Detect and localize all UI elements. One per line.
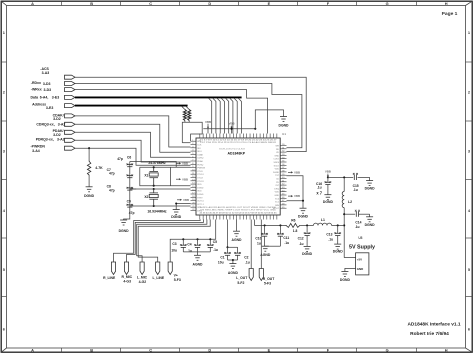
svg-text:GND: GND bbox=[357, 267, 363, 271]
capacitor C6 47p bbox=[127, 164, 134, 167]
wire C1 C2 to AGND bbox=[228, 259, 238, 261]
wire R_LINE to U1 bbox=[114, 220, 201, 263]
svg-text:PWRDN: PWRDN bbox=[197, 168, 205, 170]
ground AGND under C1 C2 bbox=[229, 264, 236, 269]
wire L_LINE to U1 bbox=[138, 220, 210, 263]
wire -ACS to U1 bbox=[75, 77, 306, 151]
svg-text:DGND: DGND bbox=[298, 214, 309, 218]
wire -RD/ to U1 bbox=[75, 84, 302, 148]
svg-text:C3: C3 bbox=[172, 242, 176, 246]
svg-text:DGND: DGND bbox=[119, 229, 130, 233]
svg-text:A: A bbox=[31, 348, 34, 353]
off-page connector -RD/ bbox=[65, 82, 76, 86]
svg-text:E: E bbox=[268, 1, 271, 6]
bus Address bbox=[75, 105, 188, 107]
svg-text:.1u: .1u bbox=[284, 241, 289, 245]
svg-text:x 7: x 7 bbox=[316, 190, 322, 195]
wire PDRQ to U1 bbox=[75, 140, 191, 162]
svg-text:WSI: WSI bbox=[197, 141, 201, 143]
svg-text:AD1848KP: AD1848KP bbox=[228, 150, 246, 155]
svg-text:CD: CD bbox=[276, 179, 280, 181]
capacitor C14 .1u bbox=[355, 210, 360, 217]
svg-text:Page 1: Page 1 bbox=[442, 11, 458, 17]
svg-text:VDD: VDD bbox=[197, 184, 202, 186]
ground AGND below U1 bbox=[233, 231, 240, 236]
svg-text:3-A2: 3-A2 bbox=[58, 122, 66, 126]
svg-text:47p: 47p bbox=[117, 157, 123, 161]
wire R1 to ground bbox=[88, 176, 90, 187]
svg-text:C14: C14 bbox=[355, 221, 361, 225]
svg-text:SDO: SDO bbox=[197, 151, 202, 153]
svg-text:VD: VD bbox=[276, 152, 279, 154]
bus Data bbox=[75, 96, 242, 98]
svg-text:VBB: VBB bbox=[205, 120, 211, 124]
svg-text:.1u: .1u bbox=[187, 249, 192, 253]
power VBB right of U1 (1) bbox=[288, 171, 291, 173]
svg-text:U1: U1 bbox=[282, 132, 286, 136]
capacitor C12 .1u bbox=[306, 225, 308, 233]
svg-text:MOUT: MOUT bbox=[273, 208, 280, 210]
svg-text:.1u: .1u bbox=[299, 242, 304, 246]
off-page connector -ACS bbox=[65, 75, 76, 79]
svg-text:C12: C12 bbox=[298, 236, 304, 240]
svg-text:SDI: SDI bbox=[197, 148, 201, 150]
inductor L1 bbox=[314, 223, 332, 225]
ground DGND under R1 bbox=[86, 187, 93, 192]
wire C15 to ground bbox=[369, 177, 371, 180]
junction -PWRDN / R1 bbox=[88, 147, 90, 149]
svg-text:DGND: DGND bbox=[365, 187, 376, 191]
svg-text:C4: C4 bbox=[187, 243, 191, 247]
svg-text:4.7K: 4.7K bbox=[95, 166, 103, 170]
off-page connector Data bus bbox=[65, 95, 76, 99]
svg-text:PDRQ3-xx,: PDRQ3-xx, bbox=[36, 138, 54, 142]
off-page connector R_MIC bbox=[124, 262, 128, 275]
svg-text:+5V: +5V bbox=[357, 258, 362, 262]
svg-text:H: H bbox=[445, 348, 448, 353]
wire +5V to U8 bbox=[344, 257, 355, 259]
wire R6 to L1 bbox=[301, 224, 314, 226]
capacitor C11 .1u bbox=[279, 225, 281, 234]
IC U1 pin stubs right bbox=[280, 146, 286, 209]
svg-text:C10: C10 bbox=[255, 237, 261, 241]
svg-text:C: C bbox=[149, 348, 152, 353]
svg-text:1.8: 1.8 bbox=[293, 229, 298, 233]
svg-text:DGND: DGND bbox=[84, 194, 95, 198]
svg-text:VDD: VDD bbox=[275, 192, 280, 194]
svg-text:VBB: VBB bbox=[325, 170, 331, 174]
svg-text:CLKO: CLKO bbox=[273, 159, 279, 161]
svg-text:H: H bbox=[445, 1, 448, 6]
svg-text:DGND: DGND bbox=[323, 200, 334, 204]
ground DGND right of C14 bbox=[366, 217, 373, 222]
svg-text:R_OUT: R_OUT bbox=[263, 277, 275, 281]
wire analog rail bbox=[253, 220, 255, 226]
ground DGND under C13 bbox=[334, 244, 341, 249]
svg-text:VBB: VBB bbox=[183, 198, 189, 202]
svg-text:X1: X1 bbox=[144, 173, 148, 177]
svg-text:C9: C9 bbox=[127, 199, 131, 203]
svg-text:CLK: CLK bbox=[197, 145, 202, 147]
svg-text:6-A4,: 6-A4, bbox=[40, 96, 49, 100]
wire VBB rail above U1 bbox=[203, 128, 255, 130]
wire CDRQ to U1 bbox=[75, 124, 191, 152]
wire L_MIC to U1 bbox=[137, 220, 207, 263]
svg-text:R_LINE: R_LINE bbox=[103, 276, 116, 280]
svg-text:VDD: VDD bbox=[275, 169, 280, 171]
svg-text:Data: Data bbox=[31, 95, 39, 99]
svg-text:L_LINE: L_LINE bbox=[152, 276, 164, 280]
svg-text:PD7 PD6 PD5 PD4 PD3 PD2 PD1 PD: PD7 PD6 PD5 PD4 PD3 PD2 PD1 PD0 CS A1 A0… bbox=[200, 141, 277, 144]
svg-text:3-A3: 3-A3 bbox=[42, 71, 50, 75]
off-page connector Address bus bbox=[65, 104, 76, 108]
wire -PWRDN to U1 bbox=[75, 148, 191, 165]
svg-text:47p: 47p bbox=[109, 172, 115, 176]
svg-text:PDAK: PDAK bbox=[197, 160, 203, 163]
capacitor C9 47p bbox=[127, 204, 134, 207]
IC U1 pin stubs top bbox=[200, 134, 277, 139]
svg-text:VDD: VDD bbox=[197, 191, 202, 193]
wire -WR/ to U1 bbox=[75, 90, 268, 134]
off-page connector PDRQ bbox=[65, 138, 76, 142]
resistor R1 4.7K bbox=[88, 148, 90, 160]
wire C3 C4 C5 to AGND bbox=[183, 251, 210, 253]
svg-text:E: E bbox=[268, 348, 271, 353]
off-page connector CDAK/ bbox=[65, 114, 76, 118]
svg-text:VBB: VBB bbox=[228, 122, 234, 126]
wire cap column bbox=[124, 162, 130, 221]
svg-text:C5: C5 bbox=[213, 240, 217, 244]
svg-text:D: D bbox=[208, 1, 211, 6]
svg-text:XTL1O: XTL1O bbox=[197, 174, 204, 176]
svg-text:CDRQ3-xx,: CDRQ3-xx, bbox=[36, 122, 54, 126]
wire U1 right pins to DGND bbox=[287, 176, 304, 209]
svg-text:4 5 6 7 8 9 10 11 12 13 14 15: 4 5 6 7 8 9 10 11 12 13 14 15 16 17 18 1… bbox=[200, 139, 278, 141]
off-page connector L_LINE bbox=[156, 262, 160, 275]
resistor R5 pull-up bbox=[188, 110, 191, 121]
svg-text:DGND: DGND bbox=[279, 124, 290, 128]
svg-text:3-D2: 3-D2 bbox=[53, 117, 61, 121]
svg-text:3-D3: 3-D3 bbox=[44, 88, 52, 92]
resistor R4 pull-up bbox=[183, 110, 186, 121]
bus entries Data to U1 top pins bbox=[209, 98, 242, 133]
capacitor C8 47p bbox=[127, 187, 134, 190]
svg-text:DGND: DGND bbox=[197, 194, 204, 196]
wire VBB rail bbox=[328, 176, 353, 178]
wire crystal X1 top bbox=[130, 162, 176, 168]
off-page connector CDRQ bbox=[65, 122, 76, 126]
ground DGND top right bbox=[280, 117, 287, 122]
wire R_OUT bbox=[260, 220, 262, 269]
capacitor C5 .1u bbox=[209, 239, 211, 245]
svg-text:MIN: MIN bbox=[275, 205, 279, 207]
capacitor C16 .1u bbox=[327, 177, 329, 182]
power VBB left of U1 (3) bbox=[177, 199, 180, 201]
svg-text:DGND: DGND bbox=[333, 249, 344, 253]
svg-text:47p: 47p bbox=[129, 211, 135, 215]
svg-text:U8: U8 bbox=[358, 236, 362, 240]
svg-text:.1u: .1u bbox=[355, 225, 360, 229]
wire L1 to +5V node bbox=[332, 224, 345, 226]
wire V+ rail bbox=[170, 220, 216, 263]
svg-text:XTL2O: XTL2O bbox=[197, 181, 204, 183]
svg-text:DRQ: DRQ bbox=[274, 188, 279, 190]
off-page connector R_OUT bbox=[259, 269, 263, 281]
svg-text:XCTL1: XCTL1 bbox=[197, 204, 204, 206]
svg-text:5-F3: 5-F3 bbox=[264, 281, 271, 285]
svg-text:3-E3: 3-E3 bbox=[52, 96, 59, 100]
svg-text:10u: 10u bbox=[218, 261, 224, 265]
capacitor C2 .1u bbox=[228, 246, 238, 248]
svg-text:-WRxx: -WRxx bbox=[31, 87, 42, 91]
off-page connector L_OUT bbox=[249, 269, 253, 281]
wire R_MIC to U1 bbox=[127, 220, 204, 263]
svg-text:3-D2: 3-D2 bbox=[53, 133, 61, 137]
svg-text:.1u: .1u bbox=[353, 188, 358, 192]
svg-text:G: G bbox=[386, 348, 389, 353]
ground DGND under cap column bbox=[120, 220, 127, 225]
svg-text:AGND: AGND bbox=[232, 238, 243, 242]
svg-text:SCLK: SCLK bbox=[274, 165, 280, 167]
svg-text:1u: 1u bbox=[257, 241, 261, 245]
svg-text:C11: C11 bbox=[283, 236, 289, 240]
svg-text:3-A4: 3-A4 bbox=[32, 149, 40, 153]
svg-text:B: B bbox=[90, 348, 93, 353]
svg-text:PD: PD bbox=[276, 182, 279, 184]
svg-text:Robert Irie 7/6/94: Robert Irie 7/6/94 bbox=[410, 331, 449, 337]
svg-text:AUX1L AUX1R AUX2L AUX2R LOUT R: AUX1L AUX1R AUX2L AUX2R LOUT ROUT VREFI … bbox=[200, 206, 277, 209]
svg-text:SDFS: SDFS bbox=[273, 162, 279, 164]
ground AGND under C4 bbox=[194, 255, 201, 260]
capacitor C3 10u bbox=[182, 239, 184, 245]
svg-text:GND: GND bbox=[274, 195, 279, 197]
svg-text:CDRQ: CDRQ bbox=[197, 158, 204, 160]
svg-text:DGND: DGND bbox=[273, 172, 280, 174]
wire CDAK/ to U1 bbox=[75, 116, 191, 147]
off-page connector R_LINE bbox=[111, 262, 115, 275]
wire to DGND top right bbox=[255, 110, 283, 129]
svg-text:DGND: DGND bbox=[302, 252, 313, 256]
ground DGND right of C15 bbox=[366, 181, 373, 186]
svg-text:DGND: DGND bbox=[365, 223, 376, 227]
svg-text:VBB: VBB bbox=[294, 171, 300, 175]
svg-text:VBB: VBB bbox=[182, 177, 188, 181]
svg-text:4-G3: 4-G3 bbox=[123, 279, 131, 283]
svg-text:G: G bbox=[386, 1, 389, 6]
svg-text:Address: Address bbox=[32, 102, 46, 106]
svg-text:LIN RIN LMIC RMIC VREF LOUT RO: LIN RIN LMIC RMIC VREF LOUT ROUT LFLT RF… bbox=[200, 210, 277, 212]
crystal X1 24.576MHz bbox=[153, 166, 155, 168]
svg-text:RD: RD bbox=[276, 149, 280, 151]
svg-text:R6: R6 bbox=[291, 219, 295, 223]
ground DGND right of U1 bbox=[300, 208, 307, 213]
svg-text:XCTL0: XCTL0 bbox=[197, 201, 204, 203]
wire U1 pin to DGND left bbox=[176, 204, 190, 210]
svg-text:TEST: TEST bbox=[197, 197, 203, 199]
wire C10 C11 to AGND bbox=[265, 245, 281, 247]
wire L2 to +5V node bbox=[343, 208, 345, 258]
off-page connector -WR/ bbox=[65, 88, 76, 92]
svg-text:5-F3: 5-F3 bbox=[174, 278, 181, 282]
capacitor C15 .1u bbox=[353, 173, 358, 180]
capacitor C10 1u bbox=[264, 225, 266, 234]
svg-text:10u: 10u bbox=[171, 248, 177, 252]
power VBB left of U1 (2) bbox=[176, 178, 179, 180]
svg-text:PDRQ: PDRQ bbox=[197, 164, 203, 166]
svg-text:42 43 44 45 46 47 48 49 50 51: 42 43 44 45 46 47 48 49 50 51 52 53 54 5… bbox=[200, 212, 278, 214]
svg-text:D: D bbox=[208, 348, 211, 353]
svg-text:L_OUT: L_OUT bbox=[236, 276, 248, 280]
svg-text:X2: X2 bbox=[144, 195, 148, 199]
off-page connector L_MIC bbox=[140, 262, 144, 275]
svg-text:L2: L2 bbox=[348, 200, 352, 204]
wire pull-ups to U1 bbox=[184, 121, 186, 123]
ground DGND left of U1 bottom bbox=[173, 210, 180, 215]
capacitor C1 10u bbox=[227, 220, 229, 248]
svg-text:.1u: .1u bbox=[317, 186, 322, 190]
power VBB right of U1 (2) bbox=[288, 195, 291, 197]
svg-text:24.576MHz: 24.576MHz bbox=[148, 161, 166, 165]
svg-text:L1: L1 bbox=[321, 218, 325, 222]
wire L_OUT bbox=[250, 220, 252, 269]
svg-text:C: C bbox=[149, 1, 152, 6]
svg-text:XCTL0 XCTL1 CLKO: XCTL0 XCTL1 CLKO bbox=[219, 149, 246, 151]
svg-text:VBB: VBB bbox=[294, 194, 300, 198]
svg-text:GND: GND bbox=[274, 155, 279, 157]
IC U1 pin stubs bottom bbox=[200, 215, 277, 220]
svg-text:.1u: .1u bbox=[245, 261, 250, 265]
wire crystal X2 net bbox=[130, 188, 136, 190]
svg-text:DRQ: DRQ bbox=[197, 211, 202, 213]
wire U1 to AGND bottom bbox=[236, 220, 238, 232]
wire PDAK/ to U1 bbox=[75, 132, 191, 157]
off-page connector V+ bbox=[168, 262, 172, 275]
svg-text:AGND: AGND bbox=[260, 253, 271, 257]
IC U1 pin numbers and names bbox=[192, 139, 285, 214]
power VBB left of U1 (1) bbox=[176, 162, 179, 164]
ground DGND under C12 bbox=[304, 246, 311, 251]
svg-text:C2: C2 bbox=[244, 256, 248, 260]
capacitor C13 .1u bbox=[337, 225, 339, 233]
svg-text:.1u: .1u bbox=[213, 248, 218, 252]
svg-text:WR: WR bbox=[276, 146, 280, 148]
capacitor C4 .1u bbox=[197, 239, 199, 245]
ground DGND under C16 bbox=[324, 195, 331, 200]
svg-text:A: A bbox=[31, 1, 34, 6]
svg-text:3-D3: 3-D3 bbox=[43, 82, 51, 86]
svg-text:4-G2: 4-G2 bbox=[139, 280, 147, 284]
svg-text:XTL2I: XTL2I bbox=[197, 178, 203, 180]
svg-text:-RDxx: -RDxx bbox=[31, 81, 41, 85]
ground DGND under U8 bbox=[341, 272, 348, 277]
svg-text:DGND: DGND bbox=[171, 215, 182, 219]
svg-text:AGND: AGND bbox=[193, 263, 204, 267]
svg-text:DGND: DGND bbox=[340, 278, 351, 282]
off-page connector -PWRDN bbox=[65, 146, 76, 150]
svg-text:16.9344MHz: 16.9344MHz bbox=[147, 209, 167, 213]
svg-text:.1u: .1u bbox=[328, 238, 333, 242]
bus entries Address to pull-ups bbox=[182, 106, 190, 109]
svg-text:DGND: DGND bbox=[197, 187, 204, 189]
resistor R6 1.8 bbox=[285, 223, 301, 227]
svg-text:C1: C1 bbox=[220, 256, 224, 260]
svg-text:AGND: AGND bbox=[228, 271, 239, 275]
svg-text:B: B bbox=[90, 1, 93, 6]
IC U1 pin stubs left bbox=[191, 141, 197, 210]
svg-text:XTL1I: XTL1I bbox=[197, 171, 203, 173]
crystal X2 16.9344MHz bbox=[153, 188, 155, 190]
off-page connector PDAK/ bbox=[65, 130, 76, 134]
wire U8 GND to ground bbox=[345, 268, 356, 271]
svg-text:47p: 47p bbox=[109, 188, 115, 192]
svg-text:5-F2: 5-F2 bbox=[237, 281, 244, 285]
wire C14 branch bbox=[344, 213, 355, 215]
svg-text:5V Supply: 5V Supply bbox=[349, 245, 375, 251]
ground AGND under C10 C11 bbox=[262, 246, 269, 251]
svg-text:3-A2: 3-A2 bbox=[57, 138, 65, 142]
svg-text:C13: C13 bbox=[326, 233, 332, 237]
svg-text:AD1848K Interface v1.1: AD1848K Interface v1.1 bbox=[407, 321, 460, 327]
svg-text:3-E3: 3-E3 bbox=[46, 106, 53, 110]
capacitor C7 47p bbox=[127, 175, 134, 178]
svg-text:VBB: VBB bbox=[182, 162, 188, 166]
svg-text:C6: C6 bbox=[127, 155, 131, 159]
svg-text:V+: V+ bbox=[174, 273, 178, 277]
inductor L2 bbox=[343, 177, 345, 191]
svg-text:CDAK: CDAK bbox=[197, 153, 203, 156]
